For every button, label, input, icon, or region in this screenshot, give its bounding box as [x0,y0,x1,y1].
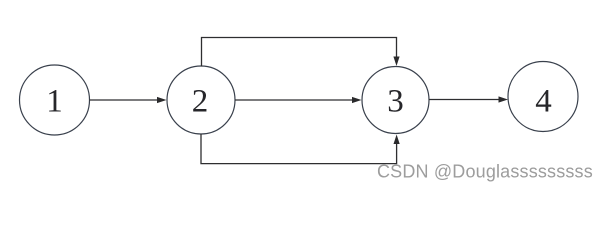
wire 1 to 2 [90,99,159,101]
bottom wire from node 2 under to node 3 [201,134,397,164]
svg-text:1: 1 [46,84,63,120]
svg-text:3: 3 [387,84,404,120]
node 3 label [387,84,404,120]
arrowhead into node 2 [157,97,167,103]
node 2 circle [167,66,235,134]
wire 3 to 4 [429,99,500,101]
node 2 label [192,84,209,120]
watermark text [377,162,593,182]
arrowhead into node 3 top [393,57,399,67]
svg-text:2: 2 [192,84,209,120]
top wire from node 2 over to node 3 [202,38,397,67]
node 3 circle [362,67,429,134]
node 1 circle [20,65,90,135]
wire 2 to 3 [235,99,353,101]
node 1 label [46,84,63,120]
node 4 circle [508,62,578,132]
arrowhead into node 3 bottom [394,135,400,145]
svg-text:CSDN @Douglasssssssss: CSDN @Douglasssssssss [377,162,593,182]
node 4 label [535,84,552,120]
arrowhead into node 3 left [352,97,362,103]
svg-text:4: 4 [535,84,552,120]
arrowhead into node 4 [499,96,509,102]
